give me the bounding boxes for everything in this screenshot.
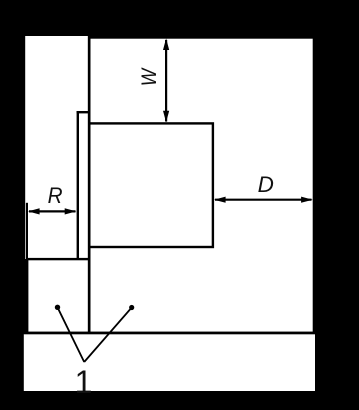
R extension line (26, 203, 28, 260)
lower-left step white face (28, 259, 88, 332)
svg-text:R: R (48, 182, 63, 208)
left column white face (25, 36, 88, 259)
strip top edge line (77, 111, 90, 113)
wire main vertical line (88, 36, 91, 334)
leader dot right (129, 305, 134, 310)
dimension D left arrowhead (214, 197, 226, 203)
dimension R line (29, 210, 76, 212)
inner square outline (89, 123, 213, 247)
leader line left (58, 307, 85, 362)
base plate top line (24, 332, 315, 335)
leader dot left (55, 305, 60, 310)
svg-text:1: 1 (75, 364, 93, 400)
leader line right (84, 308, 132, 363)
dimension R right arrowhead (65, 208, 77, 214)
strip left edge line (77, 111, 79, 260)
dimension W bottom arrowhead (163, 111, 169, 123)
dimension R left arrowhead (28, 208, 40, 214)
dimension D right arrowhead (301, 197, 313, 203)
dimension D line (215, 199, 312, 201)
dimension W line (165, 40, 167, 122)
main body white face (91, 39, 313, 332)
svg-text:D: D (258, 172, 274, 197)
step horizontal line (27, 258, 91, 260)
svg-text:W: W (138, 67, 162, 86)
dimension W top arrowhead (163, 38, 169, 50)
base plate white face (24, 334, 315, 391)
